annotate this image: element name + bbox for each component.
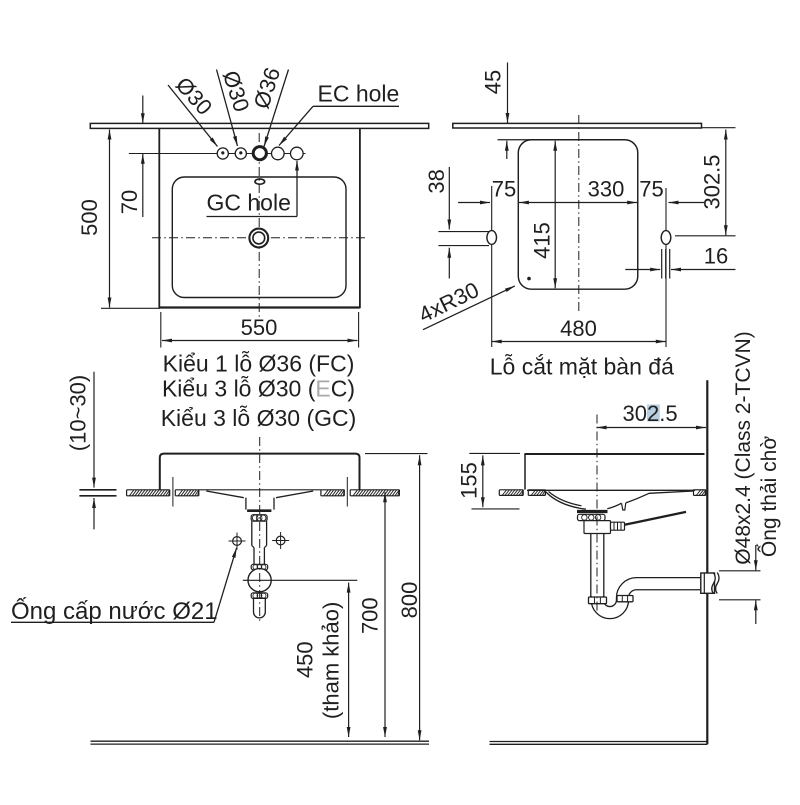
svg-text:800: 800 [397,582,422,619]
svg-text:Kiểu 1 lỗ Ø36 (FC): Kiểu 1 lỗ Ø36 (FC) [163,350,355,376]
svg-text:450: 450 [292,641,317,678]
svg-text:70: 70 [117,190,142,214]
svg-text:75: 75 [492,176,516,201]
svg-text:155: 155 [456,462,481,499]
svg-text:550: 550 [241,315,278,340]
svg-text:(tham khảo): (tham khảo) [319,602,344,719]
svg-text:Ø30: Ø30 [171,72,217,120]
svg-text:700: 700 [357,597,382,634]
svg-text:Lỗ cắt mặt bàn đá: Lỗ cắt mặt bàn đá [490,354,674,380]
svg-text:Ø30: Ø30 [218,68,255,115]
svg-text:38: 38 [424,169,449,193]
svg-text:GC hole: GC hole [207,190,291,216]
svg-text:330: 330 [588,176,625,201]
svg-text:Ống thải chờ: Ống thải chờ [757,436,781,557]
svg-text:415: 415 [530,222,555,259]
svg-text:EC hole: EC hole [318,81,400,107]
svg-text:4xR30: 4xR30 [415,277,483,327]
svg-text:45: 45 [480,70,505,94]
svg-text:Kiểu 3 lỗ Ø30 (GC): Kiểu 3 lỗ Ø30 (GC) [161,405,357,431]
svg-text:Ống cấp nước Ø21: Ống cấp nước Ø21 [11,597,218,625]
svg-text:Ø48x2.4 (Class 2-TCVN): Ø48x2.4 (Class 2-TCVN) [732,331,755,564]
svg-text:480: 480 [560,316,597,341]
svg-text:302.5: 302.5 [623,401,678,426]
svg-text:500: 500 [77,199,102,236]
svg-text:75: 75 [639,176,663,201]
svg-text:302.5: 302.5 [699,154,724,209]
svg-text:16: 16 [704,244,728,269]
svg-text:Ø36: Ø36 [249,64,286,111]
svg-text:(10~30): (10~30) [66,375,91,451]
svg-text:Kiểu 3 lỗ Ø30 (EC): Kiểu 3 lỗ Ø30 (EC) [162,375,355,401]
